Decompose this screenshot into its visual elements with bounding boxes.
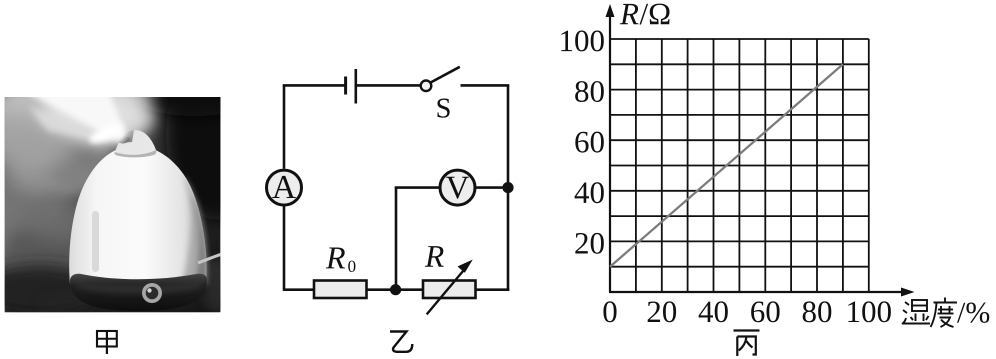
cable	[198, 254, 222, 263]
x axis label 度 glyphs	[931, 298, 958, 328]
label 甲	[97, 331, 117, 354]
x tick label 40	[699, 301, 728, 322]
nozzle	[115, 130, 156, 155]
x tick label 80	[803, 301, 832, 322]
x tick label 60	[751, 301, 779, 322]
mist plume	[0, 86, 110, 126]
ammeter A	[267, 170, 302, 205]
y tick label 80	[575, 81, 604, 102]
humidifier body	[69, 146, 206, 284]
wire top left	[283, 84, 345, 87]
resistor R0	[314, 281, 367, 299]
x axis label /%	[957, 303, 989, 323]
node bottom junction	[390, 284, 401, 295]
base	[70, 274, 207, 311]
knob	[142, 283, 162, 303]
wire left vertical bottom	[283, 206, 286, 291]
humidifier photo	[0, 50, 270, 315]
wire voltmeter to node	[475, 186, 509, 189]
wire voltmeter branch horizontal	[395, 186, 440, 189]
node right junction	[502, 182, 513, 193]
x axis label 湿度 glyphs	[902, 300, 930, 324]
switch S	[421, 67, 460, 91]
label R0	[326, 247, 345, 268]
wire bottom left	[284, 288, 314, 291]
label 丙	[734, 331, 760, 357]
x-axis	[609, 288, 915, 297]
wire bottom middle	[367, 288, 424, 291]
label R	[425, 246, 444, 267]
wire top right	[461, 84, 510, 87]
label S	[437, 99, 449, 118]
battery	[346, 69, 356, 104]
data line	[610, 64, 843, 266]
y tick label 100	[561, 30, 604, 51]
wire left vertical top	[283, 85, 286, 168]
y tick label 40	[575, 182, 604, 203]
resistor R variable	[423, 260, 476, 315]
wire voltmeter branch vertical	[395, 188, 398, 290]
x tick label 20	[648, 301, 676, 322]
graph grid	[610, 39, 869, 292]
wire bottom right	[476, 288, 510, 291]
x tick label 0	[603, 301, 616, 322]
water window	[92, 211, 99, 272]
y-axis	[606, 4, 615, 292]
wire top middle	[356, 84, 421, 87]
y tick label 20	[575, 233, 603, 254]
voltmeter V	[440, 170, 475, 205]
y axis label R/Ω	[620, 4, 639, 24]
wire right vertical	[507, 85, 510, 291]
label 乙	[390, 332, 412, 352]
x tick label 100	[848, 301, 891, 322]
y tick label 60	[575, 132, 603, 153]
